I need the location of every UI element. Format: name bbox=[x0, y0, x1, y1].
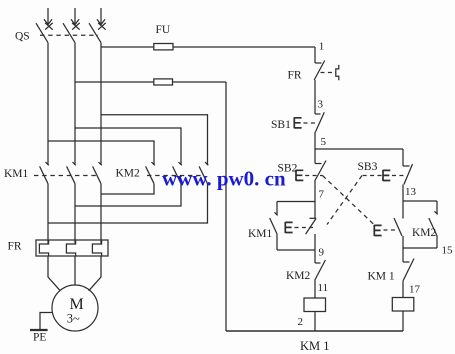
wire phase L3 rail upper bbox=[100, 43, 102, 165]
pushbutton SB1 actuator E bbox=[294, 117, 301, 128]
SB1 linkage dash bbox=[304, 122, 318, 124]
thermal relay FR box bbox=[36, 240, 108, 256]
svg-text:SB1: SB1 bbox=[271, 119, 291, 131]
relay contact KM2 (NC interlock) tick bbox=[315, 262, 321, 264]
svg-text:FR: FR bbox=[288, 70, 302, 82]
wire FR to motor L2 bbox=[74, 256, 76, 285]
contactor KM2 main contact pole 1 bbox=[152, 162, 155, 165]
wire node 17 to coil bbox=[402, 281, 404, 298]
wire FR to motor L1 bbox=[48, 256, 60, 291]
auxiliary contact KM1 (NO self-hold) upper stub bbox=[276, 202, 278, 216]
svg-text:15: 15 bbox=[442, 245, 454, 257]
node 1 wire down to FR contact bbox=[314, 47, 316, 63]
wire node 5-7 bbox=[314, 181, 316, 219]
KM1 NC blade bbox=[403, 259, 414, 281]
FR heater element 2 bbox=[66, 241, 75, 257]
FR heater element 3 bbox=[92, 241, 101, 257]
svg-text:5: 5 bbox=[321, 136, 327, 148]
wire KM2 middle return to L2 rail bbox=[75, 184, 181, 206]
SB2 linkage dash horizontal bbox=[305, 175, 322, 177]
auxiliary contact KM2 (NO self-hold) upper stub bbox=[436, 201, 438, 214]
svg-text:7: 7 bbox=[319, 189, 325, 201]
pushbutton SB3 blade bbox=[404, 164, 413, 185]
wire motor to PE bbox=[40, 313, 53, 330]
QS mechanical linkage dashed bbox=[40, 34, 98, 36]
wire node 3-5 bbox=[314, 132, 316, 164]
svg-text:www. pw0. cn: www. pw0. cn bbox=[162, 167, 286, 191]
coil KM2 bbox=[392, 298, 414, 312]
svg-text:3: 3 bbox=[318, 99, 324, 111]
KM2 aux blade bbox=[429, 218, 437, 236]
wire crossover L3 to KM2 right bbox=[101, 115, 208, 165]
wire fuse feed from L3 to FU1 bbox=[101, 46, 154, 48]
wire node 5 rail to right branch bbox=[315, 148, 403, 150]
coil KM1 bbox=[304, 298, 326, 312]
pushbutton SB3 (NO start) tick bbox=[403, 165, 410, 167]
FR linkage dash to heater symbol bbox=[321, 72, 336, 74]
wire left control rail vertical bbox=[225, 82, 227, 331]
svg-text:FU: FU bbox=[156, 24, 171, 36]
wire phase L2 rail upper bbox=[74, 43, 76, 165]
fuse FU2 bbox=[154, 79, 173, 85]
contactor KM1 main contact pole 1 bbox=[46, 162, 49, 165]
QS pole 1 cross mark bbox=[45, 23, 53, 30]
svg-text:M: M bbox=[70, 296, 84, 313]
wire KM2 left return to L3 rail bbox=[101, 184, 154, 194]
pushbutton SB2 actuator E bbox=[296, 170, 303, 181]
QS pole 3 arrowhead bbox=[97, 19, 105, 24]
QS pole 3 cross mark bbox=[98, 23, 106, 30]
relay contact KM1 (NC interlock) tick bbox=[403, 261, 410, 263]
wire phase L3 rail lower bbox=[100, 184, 102, 244]
QS pole 1 blade bbox=[36, 23, 48, 43]
KM2 NC blade bbox=[315, 260, 326, 281]
QS pole 1 arrowhead bbox=[44, 19, 52, 24]
wire coil KM1 to node 2 bbox=[314, 312, 316, 332]
SB2 NC actuator E bbox=[374, 225, 381, 236]
wire KM2 right return to L1 rail bbox=[48, 184, 208, 223]
wire node 13 branch to KM2 aux bbox=[403, 200, 437, 202]
wire right branch top bbox=[402, 149, 404, 166]
pushbutton SB1 blade bbox=[315, 112, 324, 132]
svg-text:KM 1: KM 1 bbox=[368, 271, 395, 283]
wire fuse feed from L2 to FU2 bbox=[75, 81, 154, 83]
relay contact FR (NC) blade bbox=[314, 61, 325, 81]
SB2 NC linkage dash bbox=[384, 229, 397, 231]
ground PE bar bbox=[30, 329, 48, 331]
QS pole 2 arrowhead bbox=[71, 19, 79, 24]
QS pole 3 feed wire bbox=[100, 8, 102, 24]
svg-text:11: 11 bbox=[318, 282, 329, 294]
QS pole 2 cross mark bbox=[72, 23, 80, 30]
wire phase L1 rail lower bbox=[47, 184, 49, 244]
svg-text:PE: PE bbox=[33, 332, 46, 344]
wire FU2 to left control rail bbox=[173, 81, 227, 83]
SB3 linkage dash right bbox=[392, 175, 405, 177]
contactor KM2 main contact pole 3 bbox=[205, 162, 208, 165]
wire crossover L2 to KM2 middle bbox=[75, 128, 181, 165]
fuse FU1 bbox=[154, 44, 173, 50]
svg-text:KM1: KM1 bbox=[248, 228, 273, 240]
svg-text:KM2: KM2 bbox=[116, 168, 141, 180]
QS pole 3 blade bbox=[89, 23, 101, 43]
wire phase L1 rail upper bbox=[47, 43, 49, 165]
svg-text:17: 17 bbox=[409, 284, 421, 296]
svg-text:KM2: KM2 bbox=[286, 270, 311, 282]
KM2 aux lower stub bbox=[436, 236, 438, 248]
contactor KM2 main contact pole 2 bbox=[179, 162, 182, 165]
disconnect switch QS pole 1 feed wire bbox=[47, 8, 49, 24]
wire node 15 down bbox=[402, 236, 404, 262]
wire node 11 to coil bbox=[314, 281, 316, 299]
pushbutton SB3 NC contact (left branch) tick bbox=[310, 217, 317, 219]
SB3 linkage diagonal to left NC bbox=[327, 176, 362, 225]
wire KM2 aux return to node 15 bbox=[403, 247, 437, 249]
QS pole 2 blade bbox=[63, 23, 75, 43]
svg-text:KM2: KM2 bbox=[412, 227, 437, 239]
pushbutton SB3 actuator E bbox=[383, 170, 390, 181]
FR heater element 1 bbox=[39, 241, 48, 257]
SB3 linkage dash left bbox=[362, 175, 382, 177]
wire FR to motor L3 bbox=[89, 256, 101, 291]
wire coil KM2 to bottom rail bbox=[402, 311, 404, 331]
wire node 9-KM2 bbox=[314, 234, 316, 263]
contactor KM1 main contact pole 3 bbox=[99, 162, 102, 165]
KM1 aux blade bbox=[270, 218, 277, 234]
svg-text:3~: 3~ bbox=[67, 312, 80, 326]
wire phase L2 rail lower bbox=[74, 184, 76, 244]
QS pole 2 feed wire bbox=[74, 8, 76, 24]
wire node 7 branch to KM1 aux bbox=[277, 201, 315, 203]
pushbutton SB1 (NC) tick bbox=[315, 113, 321, 115]
svg-text:FR: FR bbox=[8, 241, 22, 253]
contactor KM1 main contact pole 2 bbox=[73, 162, 76, 165]
wire crossover L1 to KM2 left bbox=[48, 141, 154, 165]
svg-text:KM1: KM1 bbox=[4, 168, 29, 180]
relay contact FR (NC) tick bbox=[315, 62, 322, 64]
SB3 NC actuator E bbox=[285, 222, 292, 233]
KM1 aux lower stub bbox=[276, 234, 278, 251]
pushbutton SB2 (NO start) tick bbox=[315, 163, 322, 165]
KM2 linkage dashed bbox=[147, 175, 203, 177]
svg-text:SB3: SB3 bbox=[358, 161, 378, 173]
svg-text:QS: QS bbox=[15, 31, 30, 43]
motor M circle bbox=[52, 285, 98, 331]
SB2 linkage diagonal to right NC bbox=[323, 176, 376, 226]
wire bottom rail bbox=[226, 330, 403, 332]
svg-text:9: 9 bbox=[319, 247, 325, 259]
wire node 1-3 bbox=[314, 80, 316, 114]
FR heater trip symbol bbox=[336, 65, 339, 80]
KM1 linkage dashed bbox=[34, 175, 97, 177]
svg-text:1: 1 bbox=[319, 41, 325, 53]
SB3 NC blade bbox=[306, 219, 316, 235]
svg-text:KM 1: KM 1 bbox=[300, 339, 330, 353]
wire node 13 down bbox=[402, 185, 404, 219]
svg-text:13: 13 bbox=[405, 186, 417, 198]
SB3 NC linkage dash bbox=[295, 227, 314, 229]
pushbutton SB2 NC contact (right branch) blade bbox=[394, 218, 402, 236]
wire KM1 aux return to node 9 bbox=[277, 249, 315, 251]
svg-text:2: 2 bbox=[298, 316, 304, 328]
pushbutton SB2 blade bbox=[315, 161, 326, 182]
wire FU1 to node 1 bbox=[173, 46, 315, 48]
